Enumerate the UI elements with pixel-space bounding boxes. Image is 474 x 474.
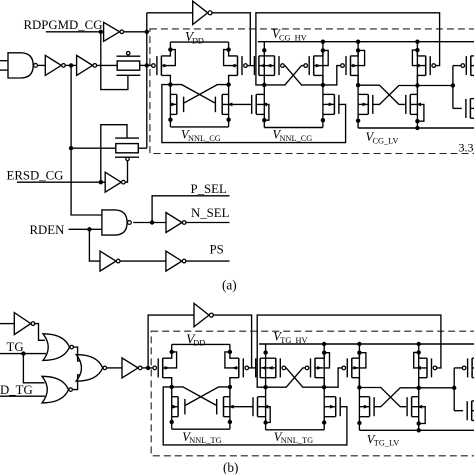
wire I11 output to W1b bbox=[213, 315, 252, 368]
svg-text:NNL_TG: NNL_TG bbox=[189, 436, 221, 445]
svg-text:P_SEL: P_SEL bbox=[191, 182, 227, 196]
pmos P3 bulk arrow (a) bbox=[351, 50, 365, 67]
nmos N1 bottom stub (b) bbox=[258, 416, 266, 418]
node dot C3 bottom (a) bbox=[356, 119, 360, 123]
wire latch-right column (a) bbox=[228, 85, 230, 127]
nmos N2 bulk arrow (b) bbox=[324, 405, 336, 409]
2-input NAND gate G2 (RDEN) bbox=[102, 210, 131, 235]
node RDEN junction dot bbox=[87, 227, 91, 231]
inverter I3 (RDPGMD_CG) bbox=[104, 22, 124, 41]
pmos P2 top stub (a) bbox=[314, 50, 323, 56]
nmos N3 gate (b) bbox=[370, 397, 375, 417]
pmos P4 gate (a) bbox=[426, 56, 436, 76]
cross wire latch right-to-left (b) bbox=[185, 387, 230, 405]
nmos N3 stubs (a) bbox=[358, 94, 368, 114]
node dot C4 bottom (b) bbox=[417, 421, 421, 425]
pmos P2 gate (a) bbox=[304, 56, 314, 76]
cross wire N3 gate (a) bbox=[373, 86, 417, 105]
wire ERSD_CG bbox=[17, 181, 105, 183]
svg-text:CG_HV: CG_HV bbox=[279, 34, 307, 43]
pmos P3 gate (a) bbox=[341, 56, 351, 76]
nmos N2 stubs (b) bbox=[324, 397, 336, 417]
node dot latch-right source (a) bbox=[226, 118, 230, 122]
wire N_SEL out bbox=[186, 222, 230, 224]
nmos N4 gate (a) bbox=[406, 95, 411, 115]
node dot latch-left source (a) bbox=[168, 118, 172, 122]
wire P3 gate from C2 (b) bbox=[324, 368, 342, 387]
dashed box (b) high-voltage domain bbox=[151, 331, 474, 456]
wire D_TG bbox=[0, 395, 45, 397]
nmos N-out stubs (b) bbox=[472, 401, 474, 421]
node dot latch-left output (a) bbox=[168, 82, 172, 86]
node dot C4 top (b) bbox=[417, 350, 421, 354]
node dot A-top (inverter I3 output join) bbox=[145, 30, 149, 34]
svg-text:PS: PS bbox=[210, 243, 224, 257]
node dot C2 bottom (b) bbox=[322, 420, 326, 424]
node ERSD junction dot bbox=[99, 180, 103, 184]
wire top (node A to inverter I4) bbox=[147, 12, 193, 14]
dashed box (a) high-voltage domain bbox=[150, 29, 474, 154]
pmos P2a bulk arrow (b) bbox=[266, 366, 276, 370]
nmos N3 gate (a) bbox=[368, 95, 373, 115]
node dot C3 top (a) bbox=[356, 48, 360, 52]
cross wire P2a gate (a) bbox=[284, 66, 323, 85]
nmos N1 gate (b) bbox=[253, 397, 258, 417]
VDD rail (a) bbox=[170, 41, 228, 43]
cross wire latch left-to-right (b) bbox=[172, 387, 217, 405]
node dot C3 mid (a) bbox=[356, 83, 360, 87]
pmos P3 bottom stub (a) bbox=[351, 75, 359, 85]
pmos P-latch-left top stub (a) bbox=[161, 50, 170, 56]
nmos N4 top stub (a) bbox=[410, 93, 417, 95]
nmos N1 bulk arrow (a) bbox=[256, 103, 269, 121]
nmos N4 top stub (b) bbox=[412, 396, 419, 398]
label D_TG (cut) bbox=[0, 383, 33, 397]
wire ERSD up to M2 top gate bbox=[101, 125, 127, 183]
inverter I2 (a) bbox=[77, 55, 97, 75]
node dot C2 mid (b) bbox=[322, 385, 326, 389]
label TG (cut) bbox=[7, 340, 24, 354]
svg-text:ERSD_CG: ERSD_CG bbox=[7, 169, 64, 183]
wire latch-right output to N1 gate (a) bbox=[222, 103, 251, 107]
wire column C1 (a) bbox=[263, 42, 265, 128]
svg-text:3.3: 3.3 bbox=[459, 141, 474, 155]
pmos P4 bottom stub (a) bbox=[417, 75, 425, 85]
pmos P4 bulk arrow (b) bbox=[414, 352, 427, 369]
label N_SEL bbox=[191, 206, 230, 220]
svg-text:CG_LV: CG_LV bbox=[373, 136, 399, 145]
nmos N-out gate (a) bbox=[466, 99, 471, 119]
wire column C3 (a) bbox=[357, 42, 359, 128]
wire driver gate bus (b) bbox=[453, 368, 455, 411]
svg-text:TG_HV: TG_HV bbox=[280, 336, 307, 345]
pmos P-out stubs (a) bbox=[471, 56, 474, 76]
wire G2 output bbox=[133, 222, 166, 224]
wire RDEN bbox=[69, 228, 102, 230]
inverter I4 (top, drives latch) bbox=[193, 1, 212, 24]
pmos P4 gate (b) bbox=[427, 358, 437, 378]
node dot C2 top (b) bbox=[322, 351, 326, 355]
nmos N-latch-left bulk arrow (a) bbox=[170, 103, 176, 107]
nmos N-latch-left stubs (b) bbox=[172, 397, 178, 417]
pmos P-out gate (a) bbox=[461, 56, 471, 76]
node dot C2 mid (a) bbox=[321, 83, 325, 87]
wire I10 output to latch bbox=[142, 367, 154, 369]
pmos P3 top stub (a) bbox=[351, 50, 359, 56]
inverter I1 (a) bbox=[45, 55, 65, 75]
nmos N-latch-left stubs (a) bbox=[170, 94, 176, 114]
pass transistor M1 top gate plate bbox=[117, 55, 141, 57]
pmos P2a gate (a) bbox=[275, 56, 285, 76]
pmos P1 gate (b) bbox=[256, 358, 261, 378]
svg-text:RDEN: RDEN bbox=[30, 223, 65, 237]
pmos P-out stubs (b) bbox=[472, 358, 474, 378]
inverter I8 (PS chain 2) bbox=[166, 251, 186, 271]
nmos N1 top stub (b) bbox=[258, 396, 266, 398]
wire column C2 (a) bbox=[322, 42, 324, 128]
pmos P2 bottom stub (b) bbox=[315, 378, 324, 388]
node dot C2 bottom (a) bbox=[321, 118, 325, 122]
node dot C1 bottom (a) bbox=[262, 118, 266, 122]
pmos P3 top stub (b) bbox=[352, 353, 360, 359]
VDD rail left drop (b) bbox=[171, 344, 173, 352]
node dot C3 rail (a) bbox=[356, 40, 360, 44]
node dot C3 top (b) bbox=[357, 351, 361, 355]
node dot C2 top (a) bbox=[321, 48, 325, 52]
node dot latch-left output (b) bbox=[170, 385, 174, 389]
wire latch-right output to N1 gate (b) bbox=[224, 405, 253, 409]
nmos N4 bulk arrow (b) bbox=[412, 405, 426, 424]
wire G5 to I10 bbox=[107, 367, 122, 369]
label CG_HV (a) bbox=[272, 27, 307, 42]
wire I5 output up to M2 bottom gate bbox=[125, 161, 128, 183]
node dot C3 mid (b) bbox=[357, 385, 361, 389]
label NNL_TG of latch (b) bbox=[182, 430, 221, 445]
svg-text:DD: DD bbox=[193, 339, 205, 348]
node dot C1 mid (a) bbox=[262, 83, 266, 87]
nmos N-latch-right stubs (b) bbox=[224, 397, 230, 417]
node dot C4 rail (b) bbox=[417, 342, 421, 346]
pmos P2 top stub (b) bbox=[315, 353, 324, 359]
svg-text:D_TG: D_TG bbox=[0, 383, 33, 397]
wire bbox=[65, 64, 77, 66]
wire latch-left column (a) bbox=[169, 85, 171, 127]
label ERSD_CG bbox=[7, 169, 64, 183]
pmos P2 gate (b) bbox=[305, 358, 315, 378]
wire latch-left output to N2 gate (long feedback) (b) bbox=[163, 387, 347, 445]
pass transistor M1 bottom gate plate bbox=[117, 74, 141, 76]
pmos P1 bulk arrow (b) bbox=[260, 366, 266, 370]
node dot latch-right output (b) bbox=[228, 385, 232, 389]
nmos N3 stubs (b) bbox=[359, 397, 369, 417]
nmos N4 bottom stub (b) bbox=[412, 416, 419, 418]
pmos P1 stubs (b) bbox=[260, 358, 265, 378]
node A junction dot (latch input node) bbox=[145, 63, 149, 67]
label 3.3 bbox=[459, 141, 474, 155]
svg-text:DD: DD bbox=[192, 36, 204, 45]
node dot P-left source (a) bbox=[168, 47, 172, 51]
label TG_HV (b) bbox=[273, 330, 307, 345]
cross wire N4 gate (a) bbox=[358, 85, 405, 104]
nmos N-latch-left gate (a) bbox=[177, 94, 184, 114]
wire latch-left column (b) bbox=[171, 387, 173, 429]
2-input NAND gate G1 (a) input stage bbox=[0, 53, 37, 78]
VDD rail right drop (b) bbox=[229, 344, 231, 352]
wire TG down to NOR2 bbox=[23, 354, 44, 383]
pmos P3 bottom stub (b) bbox=[352, 378, 360, 388]
label (a) bbox=[222, 278, 237, 293]
nmos N3 bulk arrow (b) bbox=[359, 405, 369, 409]
pmos P-latch-left bulk arrow (a) bbox=[161, 50, 175, 68]
wire driver pmos gate lead (b) bbox=[454, 367, 462, 369]
pmos P2a stubs (b) bbox=[266, 358, 276, 378]
label (b) bbox=[223, 460, 238, 474]
wire P3 gate from C2 (a) bbox=[323, 66, 341, 85]
svg-text:(a): (a) bbox=[222, 278, 237, 293]
VDD rail (b) bbox=[172, 343, 230, 345]
pmos P3 bulk arrow (b) bbox=[352, 353, 366, 370]
VDD rail right drop (a) bbox=[228, 42, 230, 50]
nmos N4 gate (b) bbox=[407, 397, 412, 417]
wire column C2 (b) bbox=[323, 344, 325, 430]
VDD rail left drop (a) bbox=[169, 42, 171, 50]
LV rail (a) bbox=[358, 127, 474, 129]
pmos P2 bottom stub (a) bbox=[314, 75, 323, 85]
svg-text:NNL_TG: NNL_TG bbox=[281, 436, 313, 445]
cross wire latch right-to-left (a) bbox=[184, 85, 229, 103]
wire RDEN to PS chain bbox=[89, 229, 100, 261]
node N_SEL junction dot bbox=[150, 220, 154, 224]
wire I9 to NOR1 bbox=[34, 324, 45, 341]
nmos N-out gate (b) bbox=[467, 401, 472, 421]
label P_SEL bbox=[191, 182, 227, 196]
pmos P-latch-left top stub (b) bbox=[163, 352, 172, 358]
wire W2 (C1 node to P4 gate) (b) bbox=[257, 315, 441, 387]
pmos P-out gate (b) bbox=[462, 358, 472, 378]
nmos N4 bottom stub (a) bbox=[410, 113, 417, 115]
node dot latch-right source (b) bbox=[228, 420, 232, 424]
node dot P-right source (b) bbox=[228, 350, 232, 354]
node RDPGMD junction dot bbox=[99, 30, 103, 34]
wire node A vertical bbox=[146, 13, 148, 148]
node dot driver gate bus (b) bbox=[452, 386, 456, 390]
nmos N2 gate (a) bbox=[334, 95, 339, 115]
wire driver pmos gate lead (a) bbox=[453, 65, 461, 67]
node dot latch-right output (a) bbox=[226, 82, 230, 86]
wire J1 down to NAND G2 bbox=[71, 65, 102, 215]
pmos P-latch-right bottom stub (a) bbox=[229, 75, 238, 84]
svg-text:RDPGMD_CG: RDPGMD_CG bbox=[24, 18, 103, 32]
cross wire P2 gate (a) bbox=[264, 66, 304, 85]
node dot C4 top (a) bbox=[415, 48, 419, 52]
pmos P4 bottom stub (b) bbox=[419, 378, 427, 388]
wire driver nmos gate lead (b) bbox=[454, 410, 463, 412]
svg-text:NNL_CG: NNL_CG bbox=[188, 134, 221, 143]
nmos N-latch-left bulk arrow (b) bbox=[172, 405, 178, 409]
pmos P2a bulk arrow (a) bbox=[264, 64, 274, 68]
nmos N1 top stub (a) bbox=[256, 93, 264, 95]
inverter I9 (b) input inverter bbox=[14, 313, 35, 335]
wire HV box output to driver gates (a) bbox=[417, 85, 453, 87]
inverter I10 (b) bbox=[122, 358, 142, 378]
pmos P4 top stub (b) bbox=[419, 352, 427, 358]
nmos N2 gate (b) bbox=[336, 397, 341, 417]
nmos N2 bulk arrow (a) bbox=[323, 103, 335, 107]
pmos P-latch-right gate (b) bbox=[239, 358, 249, 378]
wire M2 output to node A bbox=[138, 147, 147, 149]
node dot C4 mid (b) bbox=[417, 386, 421, 390]
label TG_LV (b) bbox=[367, 432, 400, 447]
node dot C1 top (b) bbox=[263, 350, 267, 354]
pmos P-latch-right gate (a) bbox=[238, 56, 248, 76]
wire TG bbox=[0, 353, 46, 355]
cross wire P2 gate (b) bbox=[266, 368, 306, 387]
nmos N4 bulk arrow (a) bbox=[410, 103, 424, 122]
pmos P-latch-right bulk arrow (a) bbox=[224, 50, 238, 68]
NOR gate G4 (b) bbox=[42, 376, 72, 403]
LV rail (b) bbox=[359, 429, 474, 431]
pmos P-latch-left gate (a) bbox=[152, 56, 162, 76]
wire W1 lead (b) bbox=[248, 367, 256, 369]
nmos N-latch-right gate (b) bbox=[217, 397, 224, 417]
pass transistor M1 top gate circle bbox=[127, 52, 130, 57]
wire bbox=[120, 260, 166, 262]
pmos P-latch-right top stub (b) bbox=[230, 352, 239, 358]
svg-text:TG_LV: TG_LV bbox=[374, 439, 400, 448]
node B junction dot (latch input node b) bbox=[146, 366, 150, 370]
wire W2 (C1 node to P4 gate) (a) bbox=[256, 13, 440, 85]
cross wire N4 gate (b) bbox=[359, 388, 406, 407]
svg-text:(b): (b) bbox=[223, 460, 238, 474]
nmos N1 bottom stub (a) bbox=[256, 113, 264, 115]
label RDEN bbox=[30, 223, 65, 237]
NOR gate G3 (b) bbox=[43, 334, 73, 361]
pmos P-latch-left bulk arrow (b) bbox=[163, 352, 177, 370]
VNNL rail of latch (b) bbox=[172, 428, 230, 430]
svg-text:NNL_CG: NNL_CG bbox=[280, 134, 313, 143]
nmos N-latch-right gate (a) bbox=[215, 94, 222, 114]
inverter I6 (N_SEL) bbox=[166, 213, 186, 233]
pass transistor M2 bottom gate bubble bbox=[126, 157, 129, 160]
node dot latch-left source (b) bbox=[170, 420, 174, 424]
node dot C4 mid (a) bbox=[415, 83, 419, 87]
node dot C1 top (a) bbox=[262, 48, 266, 52]
pmos P-latch-left gate (b) bbox=[153, 358, 163, 378]
pass transistor M2 top gate plate bbox=[115, 137, 139, 139]
wire bbox=[37, 64, 45, 66]
pmos P4 top stub (a) bbox=[417, 50, 425, 56]
wire RDPGMD_CG bbox=[46, 31, 101, 33]
label PS bbox=[210, 243, 224, 257]
svg-text:N_SEL: N_SEL bbox=[191, 206, 230, 220]
wire M1 output bbox=[140, 64, 147, 66]
wire I4 output to W1 bbox=[211, 13, 250, 66]
wire NOR1 to NOR5 bbox=[73, 347, 80, 361]
pmos P2a gate (b) bbox=[276, 358, 286, 378]
svg-text:TG: TG bbox=[7, 340, 24, 354]
inverter I5 (ERSD_CG) bbox=[105, 172, 125, 192]
node dot C1 mid (b) bbox=[263, 385, 267, 389]
pmos P2 bulk arrow (b) bbox=[315, 353, 330, 370]
label NNL_CG of HV box (a) bbox=[273, 128, 313, 143]
pass transistor M2 body bbox=[116, 144, 139, 153]
pmos P-latch-left bottom stub (b) bbox=[163, 378, 172, 387]
nmos N1 bulk arrow (b) bbox=[258, 405, 271, 423]
wire latch-left output to N2 gate (long feedback) (a) bbox=[162, 85, 346, 143]
pmos P-latch-left bottom stub (a) bbox=[161, 75, 170, 84]
wire latch-right column (b) bbox=[229, 387, 231, 429]
nmos N-latch-left gate (b) bbox=[178, 397, 185, 417]
node dot C4 rail (a) bbox=[415, 40, 419, 44]
pmos P1 bulk arrow (a) bbox=[259, 64, 265, 68]
wire P_SEL branch bbox=[152, 196, 229, 223]
nmos N-out stubs (a) bbox=[470, 99, 474, 119]
nmos N-latch-right stubs (a) bbox=[222, 94, 228, 114]
wire column C4 (b) bbox=[418, 344, 420, 430]
cross wire N3 gate (b) bbox=[375, 388, 419, 407]
pmos P-latch-right top stub (a) bbox=[229, 50, 238, 56]
label V_DD (b) bbox=[186, 331, 205, 347]
pmos P-latch-right bulk arrow (b) bbox=[225, 352, 239, 370]
wire column C3 (b) bbox=[358, 344, 360, 430]
nmos N3 bulk arrow (a) bbox=[358, 103, 368, 107]
node dot P-right source (a) bbox=[226, 47, 230, 51]
node dot P-left source (b) bbox=[170, 350, 174, 354]
wire driver nmos gate lead (a) bbox=[453, 107, 462, 109]
pmos P1 stubs (a) bbox=[259, 56, 264, 76]
node J1b junction dot (feed to pass gate M2) bbox=[69, 146, 73, 150]
wire M2 input bbox=[71, 147, 116, 149]
node dot C3 bottom (b) bbox=[357, 421, 361, 425]
wire latch input gate lead (a) bbox=[147, 64, 152, 66]
label CG_LV (a) bbox=[366, 130, 399, 145]
label NNL_TG of HV box (b) bbox=[274, 430, 313, 445]
wire column C4 (a) bbox=[416, 42, 418, 128]
wire M1 bottom gate from RDPGMD_CG bbox=[101, 32, 128, 90]
node J1 junction dot bbox=[69, 63, 73, 67]
label V_DD (a) bbox=[185, 29, 204, 45]
wire bbox=[96, 64, 117, 66]
pmos P2a stubs (a) bbox=[264, 56, 274, 76]
node dot C4 on LV rail (a) bbox=[415, 126, 419, 130]
node dot C2 rail (a) bbox=[321, 40, 325, 44]
node dot C3 rail (b) bbox=[357, 342, 361, 346]
wire PS out bbox=[185, 260, 229, 262]
cross wire latch left-to-right (a) bbox=[170, 85, 215, 103]
wire node B up to top wire bbox=[148, 315, 194, 368]
VNNL rail of latch (a) bbox=[170, 126, 228, 128]
wire NOR2 to NOR5 bbox=[72, 375, 80, 390]
pmos P3 gate (b) bbox=[342, 358, 352, 378]
nmos N2 stubs (a) bbox=[323, 94, 335, 114]
nmos N1 gate (a) bbox=[252, 95, 257, 115]
node dot C4 bottom (a) bbox=[415, 119, 419, 123]
wire I3 output to node A bbox=[123, 31, 146, 33]
wire column C1 (b) bbox=[265, 344, 267, 430]
inverter I11 (top, b) bbox=[194, 303, 213, 326]
VNNL rail of HV box (a) bbox=[264, 127, 323, 129]
wire I9 input bbox=[0, 323, 14, 325]
HV rail (a) bbox=[258, 41, 474, 43]
wire HV box output to driver gates (b) bbox=[419, 387, 455, 389]
node dot C1 bottom (b) bbox=[263, 420, 267, 424]
NOR gate G5 (b) bbox=[76, 355, 106, 382]
inverter I7 (PS chain 1) bbox=[100, 251, 120, 271]
HV rail (b) bbox=[259, 343, 474, 345]
label NNL_CG of latch (a) bbox=[181, 128, 221, 143]
pmos P-latch-right bottom stub (b) bbox=[230, 378, 239, 387]
node dot C4 on LV rail (b) bbox=[417, 428, 421, 432]
